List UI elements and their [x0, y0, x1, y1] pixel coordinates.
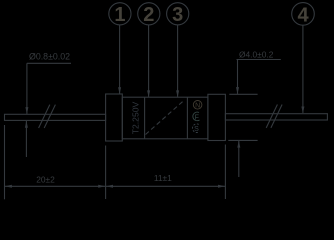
lead diameter lower arrow line [25, 121, 28, 158]
callout digit 2 [143, 4, 154, 26]
bottom extension line left (lead end) [4, 125, 6, 199]
body diameter leader underline [237, 59, 281, 61]
svg-text:T2.250V: T2.250V [131, 101, 141, 134]
svg-text:Ø0.8±0.02: Ø0.8±0.02 [29, 52, 70, 62]
svg-text:11±1: 11±1 [154, 173, 172, 183]
lead diameter dimension text [29, 52, 70, 62]
body diameter bottom extension line [228, 139, 257, 141]
right end cap [208, 94, 226, 140]
fuse element (dashed diagonal) [146, 101, 184, 135]
lead diameter upper arrow line [25, 63, 28, 114]
callout digit 4 [297, 4, 309, 26]
body length text 11+/-1 [154, 173, 172, 183]
approval mark S [192, 124, 199, 133]
callout balloon 2 [138, 3, 160, 25]
svg-text:20±2: 20±2 [36, 174, 55, 184]
body diameter upper arrow line [236, 60, 239, 95]
svg-text:Ø4.0±0.2: Ø4.0±0.2 [239, 50, 274, 60]
marking band divider right [186, 97, 188, 139]
svg-text:2: 2 [143, 4, 154, 26]
svg-text:S: S [194, 126, 199, 133]
leader from balloon 4 to right lead [301, 25, 304, 113]
leader from balloon 2 to body [147, 25, 150, 97]
svg-text:3: 3 [172, 4, 183, 26]
lead length dimension line [5, 185, 106, 188]
callout digit 1 [114, 4, 125, 26]
callout balloon 1 [109, 3, 131, 25]
svg-text:F: F [195, 114, 199, 121]
right lead break symbol [266, 105, 282, 128]
callout digit 3 [172, 4, 183, 26]
left lead wire [5, 114, 106, 120]
svg-text:N: N [195, 103, 200, 110]
approval mark N [193, 101, 202, 110]
body length dimension line [106, 185, 225, 188]
body diameter top extension line [229, 93, 257, 95]
bottom extension line middle (left cap edge) [105, 146, 107, 200]
lead diameter leader underline [27, 62, 71, 64]
rating text T2.250V (vertical) [131, 101, 141, 134]
svg-text:1: 1 [114, 4, 125, 26]
body diameter lower arrow line [237, 140, 240, 177]
glass body [122, 97, 208, 139]
left end cap [106, 94, 123, 141]
body diameter dimension text [239, 50, 274, 60]
callout balloon 3 [167, 3, 189, 25]
left lead break symbol [39, 105, 56, 128]
marking band divider left [144, 97, 146, 139]
lead length text 20+/-2 [36, 174, 55, 184]
leader from balloon 3 to fuse element [176, 25, 179, 97]
callout balloon 4 [292, 3, 315, 26]
leader from balloon 1 to left cap [118, 25, 121, 94]
svg-text:4: 4 [297, 4, 309, 26]
bottom extension line right (right cap edge) [224, 145, 226, 200]
approval mark F [193, 112, 200, 121]
right lead wire [225, 114, 327, 120]
